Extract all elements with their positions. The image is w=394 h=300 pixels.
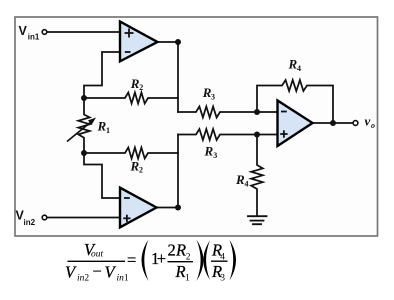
svg-text:R: R [130,158,140,173]
svg-text:2: 2 [139,83,143,92]
svg-text:R: R [288,57,298,72]
svg-text:in2: in2 [77,274,89,284]
svg-text:4: 4 [245,180,249,189]
svg-text:1: 1 [185,274,190,284]
svg-text:+: + [157,249,166,268]
svg-text:R: R [97,119,107,134]
svg-text:in1: in1 [117,274,129,284]
svg-text:3: 3 [211,93,215,102]
svg-text:2: 2 [168,241,176,260]
svg-text:=: = [127,250,136,269]
svg-text:V: V [19,24,28,38]
svg-text:R: R [175,241,186,260]
svg-text:4: 4 [297,64,301,73]
svg-text:2: 2 [186,253,191,263]
svg-text:in1: in1 [28,33,40,42]
svg-text:R: R [204,143,214,158]
svg-text:3: 3 [220,274,225,284]
svg-text:o: o [371,121,375,130]
svg-text:v: v [365,114,371,129]
svg-text:−: − [93,262,102,281]
svg-text:1: 1 [106,126,110,135]
svg-text:out: out [91,250,104,260]
svg-text:R: R [235,172,245,187]
svg-text:2: 2 [139,166,143,175]
svg-text:3: 3 [213,151,217,160]
svg-text:R: R [175,262,186,281]
svg-text:in2: in2 [24,218,36,227]
